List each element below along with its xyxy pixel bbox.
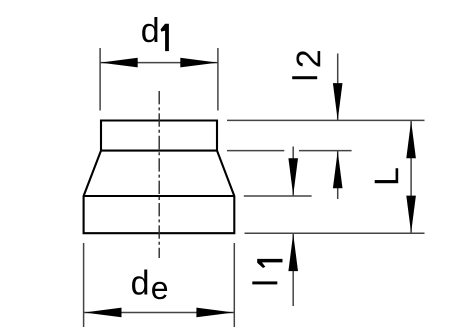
l1 dimension line upper part: [292, 147, 294, 196]
L arrowhead down: [406, 196, 416, 233]
L dimension line: [410, 121, 412, 233]
label d1 subscript digit: [161, 24, 169, 51]
l2 arrowhead down: [333, 83, 343, 120]
collar bottom extension line segment a: [227, 150, 284, 152]
label l1 subscript digit (rotated custom glyph): [257, 259, 282, 268]
bottom edge extension line to right: [245, 232, 425, 234]
l2 dimension line upper part: [337, 54, 339, 121]
label L (rotated): [368, 167, 406, 186]
l2 dimension line lower tail: [337, 151, 339, 199]
collar bottom edge: [101, 150, 217, 152]
svg-text:d: d: [141, 12, 160, 50]
center line: [158, 91, 160, 258]
label l2 (rotated): [287, 49, 328, 81]
d1 arrowhead left: [100, 58, 137, 68]
svg-text:l: l: [287, 74, 325, 82]
svg-text:L: L: [368, 167, 406, 186]
top edge extension line to right: [227, 119, 425, 121]
de arrowhead right: [196, 308, 233, 318]
L arrowhead up: [406, 121, 416, 158]
reducer body outline: [84, 121, 235, 234]
d1 dimension line: [100, 62, 218, 64]
d1 extension line right: [217, 48, 219, 111]
de extension line right: [233, 243, 235, 327]
d1 arrowhead right: [180, 58, 217, 68]
svg-text:l: l: [247, 279, 285, 287]
de dimension line: [84, 311, 235, 313]
d1 extension line left: [99, 48, 101, 111]
de arrowhead left: [84, 308, 121, 318]
de extension line left: [83, 243, 85, 327]
collar bottom extension line segment b: [299, 150, 352, 152]
svg-text:d: d: [131, 265, 150, 303]
svg-text:e: e: [151, 270, 169, 306]
l1 arrowhead down: [288, 158, 298, 195]
l1 dimension line lower tail: [292, 234, 294, 306]
l2 arrowhead up: [333, 151, 343, 188]
label l1 (rotated): [247, 279, 285, 287]
l1 arrowhead up: [288, 234, 298, 271]
lower cylinder top extension line: [244, 195, 312, 197]
bottom cylinder top edge: [84, 195, 235, 197]
svg-text:2: 2: [290, 49, 328, 68]
